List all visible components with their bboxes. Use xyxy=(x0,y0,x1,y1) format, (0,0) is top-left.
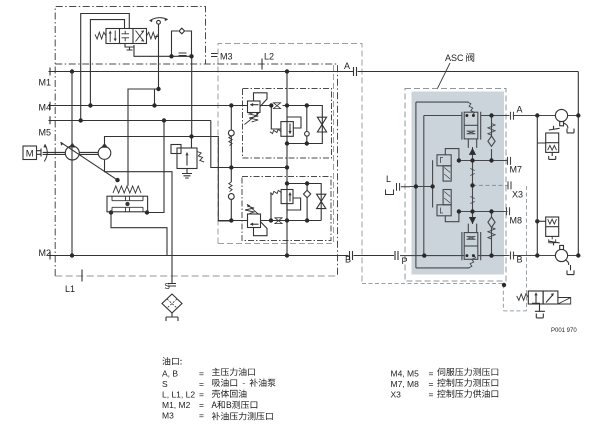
svg-text:P: P xyxy=(402,256,408,266)
svg-text:=: = xyxy=(199,390,204,400)
svg-text:S: S xyxy=(162,379,168,389)
svg-text:M1: M1 xyxy=(39,78,52,88)
svg-text:M3: M3 xyxy=(162,411,174,421)
svg-text:B: B xyxy=(345,255,351,265)
svg-text:=: = xyxy=(199,369,204,379)
svg-text:M5: M5 xyxy=(39,128,52,138)
svg-text:S: S xyxy=(165,282,170,291)
svg-text:M7: M7 xyxy=(510,165,523,175)
svg-text:A, B: A, B xyxy=(162,369,178,379)
svg-text:L1: L1 xyxy=(65,284,75,294)
svg-text:M3: M3 xyxy=(220,52,233,62)
svg-text:M4, M5: M4, M5 xyxy=(391,369,420,379)
svg-text:M1, M2: M1, M2 xyxy=(162,400,191,410)
svg-text:P001 970: P001 970 xyxy=(551,328,577,334)
svg-text:M8: M8 xyxy=(510,216,523,226)
svg-text:L, L1, L2: L, L1, L2 xyxy=(162,390,195,400)
svg-text:M2: M2 xyxy=(39,248,52,258)
svg-text:L2: L2 xyxy=(264,52,274,62)
svg-text:L: L xyxy=(386,174,391,184)
svg-text:=: = xyxy=(199,379,204,389)
svg-text:A: A xyxy=(517,105,523,115)
svg-text:M4: M4 xyxy=(39,103,52,113)
svg-text:=: = xyxy=(199,400,204,410)
svg-text:=: = xyxy=(429,390,434,400)
svg-text:ASC: ASC xyxy=(445,53,464,63)
svg-text:X3: X3 xyxy=(391,390,402,400)
svg-text:M7, M8: M7, M8 xyxy=(391,379,420,389)
svg-text:=: = xyxy=(429,379,434,389)
svg-text:B: B xyxy=(517,255,523,265)
svg-text:=: = xyxy=(199,411,204,421)
svg-text:A: A xyxy=(344,61,350,71)
svg-text:=: = xyxy=(429,369,434,379)
svg-text:X3: X3 xyxy=(512,190,523,200)
svg-text:M: M xyxy=(26,148,34,159)
